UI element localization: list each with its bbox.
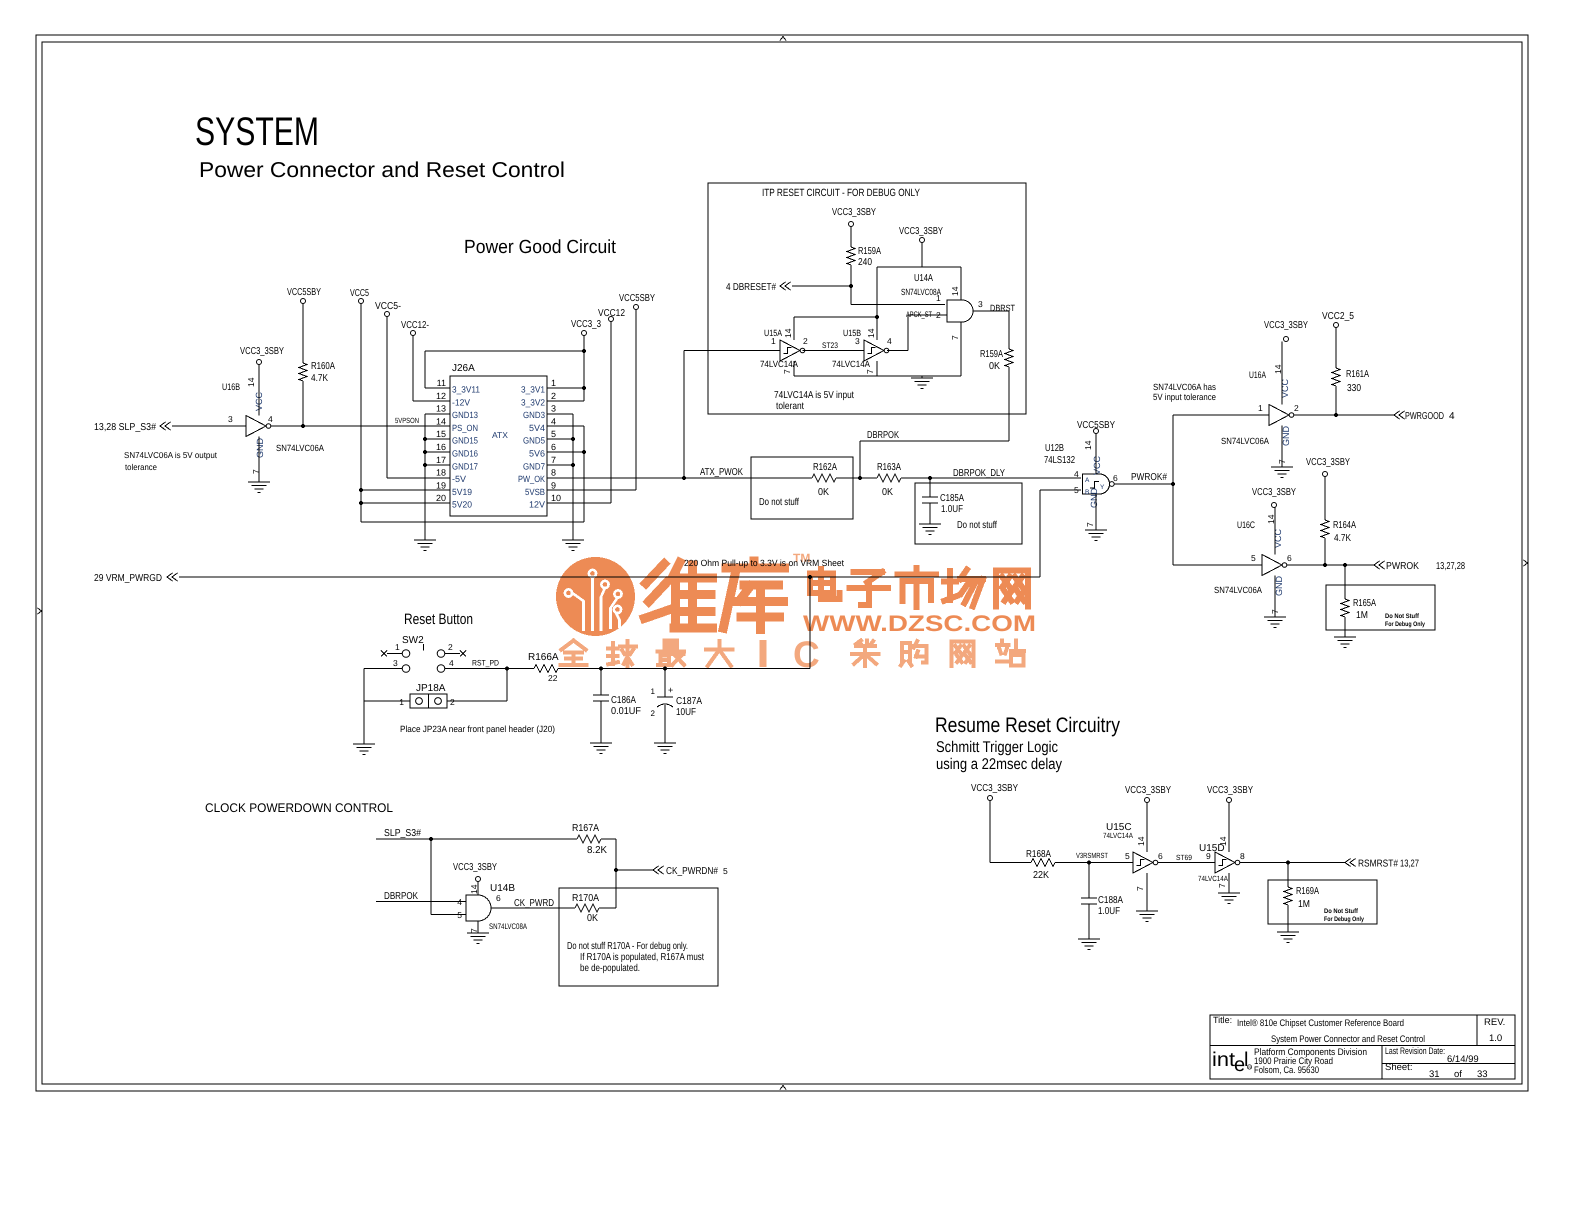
- wire U16A output PWRGOOD: [1294, 414, 1394, 416]
- ground at J26A right: [562, 539, 584, 541]
- svg-text:VCC2_5: VCC2_5: [1322, 311, 1354, 322]
- svg-text:5V input tolerance: 5V input tolerance: [1153, 392, 1216, 402]
- svg-text:10UF: 10UF: [676, 707, 696, 718]
- svg-text:PW_OK: PW_OK: [518, 474, 545, 484]
- svg-text:19: 19: [436, 480, 446, 490]
- resistor R169A 1M: [1287, 863, 1289, 888]
- wire VCC3_3 vertical to pins 1,2: [583, 336, 585, 402]
- svg-text:ATX: ATX: [492, 430, 508, 440]
- svg-text:7: 7: [950, 335, 960, 340]
- junction R164A-PWROK: [1323, 563, 1327, 567]
- svg-text:VCC3_3SBY: VCC3_3SBY: [832, 207, 876, 218]
- svg-text:5: 5: [723, 866, 728, 876]
- svg-text:U16A: U16A: [1249, 370, 1266, 381]
- wire U15D output RSMRST#: [1240, 862, 1345, 864]
- inner border frame: [42, 42, 1522, 1084]
- ground at C186A: [590, 742, 612, 744]
- svg-text:74LVC14A: 74LVC14A: [1103, 831, 1133, 840]
- svg-text:ATX_PWOK: ATX_PWOK: [700, 467, 743, 478]
- svg-text:13,27: 13,27: [1400, 859, 1419, 870]
- svg-text:6: 6: [496, 893, 501, 903]
- svg-text:REV.: REV.: [1484, 1017, 1505, 1028]
- svg-text:8.2K: 8.2K: [587, 845, 607, 856]
- output port RSMRST# to sheets 13,27: [1345, 859, 1351, 867]
- wire U14A ground stem: [921, 376, 923, 378]
- svg-text:VCC3_3SBY: VCC3_3SBY: [1207, 785, 1253, 796]
- wire SLP_S3# down to U14B pin 5: [430, 839, 432, 915]
- svg-text:3: 3: [551, 404, 556, 414]
- svg-text:22: 22: [548, 673, 558, 683]
- svg-text:4.7K: 4.7K: [311, 373, 328, 384]
- wire J26A pin 2: [547, 400, 584, 402]
- wire J26A pin 11 to VCC3_3 rail: [425, 387, 450, 389]
- svg-text:5: 5: [457, 910, 462, 920]
- ground at C185A: [919, 523, 941, 525]
- svg-text:Reset Button: Reset Button: [404, 611, 473, 628]
- wire SLP_S3# to R167A: [376, 838, 577, 840]
- wire U16B output to J26A pin 14 PS_ON net 5VPSON: [271, 425, 450, 427]
- svg-text:C186A: C186A: [611, 695, 636, 706]
- svg-text:74LS132: 74LS132: [1044, 455, 1075, 466]
- do-not-stuff box R162A: [751, 457, 853, 519]
- junction DBRESET#-R159A: [849, 284, 853, 288]
- svg-text:1: 1: [1258, 403, 1263, 413]
- svg-text:R159A: R159A: [858, 246, 881, 257]
- junction C187A tap: [663, 666, 667, 670]
- svg-text:1: 1: [771, 336, 776, 346]
- svg-text:For Debug Only: For Debug Only: [1324, 916, 1364, 923]
- svg-text:RST_PD: RST_PD: [472, 659, 499, 668]
- svg-text:5V4: 5V4: [529, 423, 545, 433]
- junction VRM_PWRGD-reset net: [808, 575, 812, 579]
- svg-text:SN74LVC06A is 5V output: SN74LVC06A is 5V output: [124, 450, 218, 460]
- svg-text:240: 240: [858, 257, 872, 268]
- resistor R160A 4.7K: [302, 304, 304, 364]
- svg-text:14: 14: [246, 377, 256, 387]
- svg-text:14: 14: [950, 286, 960, 296]
- svg-text:DBRPOK: DBRPOK: [867, 430, 899, 441]
- watermark logo disc: [556, 557, 635, 636]
- right center zone mark: [1524, 560, 1528, 566]
- schmitt inverter U15A 74LVC14A: [760, 328, 808, 374]
- svg-text:13: 13: [436, 404, 446, 414]
- junction SLP_S3# branch to U14B: [429, 837, 433, 841]
- svg-text:VCC3_3SBY: VCC3_3SBY: [1264, 320, 1308, 331]
- wire J26A pin 4 5V4: [547, 425, 584, 427]
- svg-text:4: 4: [449, 658, 454, 668]
- svg-text:JP18A: JP18A: [416, 683, 446, 694]
- wire SW2 pin 3 to ground bus: [364, 668, 402, 670]
- svg-text:GND: GND: [1089, 488, 1099, 509]
- wire VCC12- to pin 12: [412, 336, 414, 402]
- svg-text:1: 1: [395, 642, 400, 652]
- ground at U16B: [248, 481, 270, 483]
- svg-text:SLP_S3#: SLP_S3#: [384, 828, 421, 839]
- svg-text:18: 18: [436, 468, 446, 478]
- svg-text:74LVC14A: 74LVC14A: [760, 359, 798, 369]
- resistor R163A 0K: [877, 474, 901, 482]
- svg-text:Do not stuff R170A - For debu: Do not stuff R170A - For debug only.: [567, 941, 688, 952]
- wire J26A pin 6 5V6: [547, 451, 584, 453]
- svg-text:4.7K: 4.7K: [1334, 533, 1351, 544]
- svg-text:1.0UF: 1.0UF: [941, 504, 963, 515]
- ground at U15C: [1136, 910, 1158, 912]
- svg-text:Power Connector and Reset Cont: Power Connector and Reset Control: [199, 158, 565, 182]
- svg-text:2: 2: [551, 391, 556, 401]
- svg-text:VCC5: VCC5: [350, 288, 369, 299]
- svg-text:PWROK#: PWROK#: [1131, 472, 1167, 483]
- junction R169A tap: [1286, 860, 1290, 864]
- svg-text:0K: 0K: [882, 487, 893, 498]
- svg-text:of: of: [1454, 1069, 1462, 1080]
- svg-text:9: 9: [551, 480, 556, 490]
- svg-text:7: 7: [1217, 883, 1227, 888]
- svg-text:PWROK: PWROK: [1386, 561, 1419, 572]
- svg-text:5VSB: 5VSB: [525, 487, 545, 497]
- resistor R159A 240: [850, 227, 852, 248]
- junction C185A tap: [928, 476, 932, 480]
- svg-text:VCC3_3SBY: VCC3_3SBY: [1125, 785, 1171, 796]
- inverter U16C: [1214, 508, 1292, 618]
- svg-text:R170A: R170A: [572, 893, 599, 904]
- svg-text:5V20: 5V20: [452, 500, 472, 510]
- capacitor C187A 10UF polarized: [664, 669, 666, 698]
- svg-text:4: 4: [887, 336, 892, 346]
- junction 5V bus-5V6: [582, 450, 586, 454]
- svg-text:2: 2: [448, 642, 453, 652]
- wire DBRPOK to U14B pin 4: [376, 901, 466, 903]
- svg-text:Last Revision Date:: Last Revision Date:: [1385, 1046, 1445, 1057]
- svg-text:4: 4: [268, 414, 273, 424]
- svg-text:GND16: GND16: [452, 449, 478, 459]
- ground at U15D: [1218, 892, 1240, 894]
- ground at C187A: [654, 742, 676, 744]
- svg-text:tolerance: tolerance: [125, 462, 157, 472]
- U14A power rail rect: [877, 266, 961, 268]
- svg-text:tolerant: tolerant: [776, 401, 804, 412]
- junction C188A tap: [1087, 860, 1091, 864]
- svg-text:R168A: R168A: [1026, 849, 1051, 860]
- wire J26A pin 20: [361, 502, 450, 504]
- junction GND7: [571, 463, 575, 467]
- svg-text:0K: 0K: [818, 487, 829, 498]
- svg-text:5: 5: [551, 429, 556, 439]
- svg-text:For Debug Only: For Debug Only: [1385, 621, 1425, 628]
- svg-text:R162A: R162A: [813, 462, 837, 473]
- U15 power rail rect: [794, 316, 877, 318]
- svg-text:7: 7: [865, 369, 875, 374]
- svg-text:10: 10: [551, 493, 561, 503]
- svg-text:GND: GND: [255, 438, 265, 459]
- svg-text:SN74LVC06A: SN74LVC06A: [1221, 436, 1269, 446]
- svg-text:SN74LVC06A: SN74LVC06A: [1214, 585, 1262, 595]
- svg-text:Do not stuff: Do not stuff: [957, 520, 997, 531]
- svg-text:22K: 22K: [1033, 870, 1049, 881]
- svg-text:PS_ON: PS_ON: [452, 423, 478, 433]
- svg-text:GND7: GND7: [523, 461, 545, 471]
- svg-text:U16C: U16C: [1237, 520, 1255, 531]
- watermark characters dian-zi-shi-chang-wang: [810, 571, 833, 577]
- svg-text:1: 1: [551, 378, 556, 388]
- wire U15B output to U14A pin 2: [887, 350, 908, 352]
- svg-text:ITP RESET CIRCUIT - FOR DEBUG: ITP RESET CIRCUIT - FOR DEBUG ONLY: [762, 187, 920, 199]
- svg-text:4 DBRESET#: 4 DBRESET#: [726, 282, 776, 293]
- wire VCC5SBY to pin 9: [635, 310, 637, 491]
- output port PWROK to sheets 13,27,28: [1374, 561, 1380, 569]
- svg-text:VCC3_3: VCC3_3: [571, 319, 601, 330]
- resistor R159A 0K pulldown: [1008, 311, 1010, 349]
- wire ATX_PWOK up to U15A input: [683, 351, 685, 479]
- svg-text:17: 17: [436, 455, 446, 465]
- ground at R165A: [1334, 636, 1356, 638]
- svg-text:1M: 1M: [1356, 610, 1368, 621]
- svg-text:0.01UF: 0.01UF: [611, 706, 641, 717]
- wire DBRPOK net: [859, 441, 861, 478]
- svg-text:5V19: 5V19: [452, 487, 472, 497]
- svg-text:SN74LVC08A: SN74LVC08A: [901, 287, 941, 297]
- svg-text:Do Not Stuff: Do Not Stuff: [1324, 908, 1359, 915]
- svg-text:VCC5-: VCC5-: [375, 301, 401, 312]
- junction U14A rail to U15 rail: [875, 315, 879, 319]
- wire U16C output PWROK: [1287, 564, 1374, 566]
- svg-text:2: 2: [803, 336, 808, 346]
- svg-text:14: 14: [1083, 440, 1093, 450]
- wire U12B output PWROK#: [1114, 483, 1173, 485]
- svg-text:Do not stuff: Do not stuff: [759, 497, 799, 508]
- wire JP18A pin 2: [447, 700, 507, 702]
- ground at J26A left: [414, 539, 436, 541]
- ITP reset circuit box: [708, 183, 1026, 414]
- capacitor C186A 0.01UF: [600, 669, 602, 696]
- svg-text:If R170A is populated, R167A m: If R170A is populated, R167A must: [580, 952, 704, 963]
- svg-text:8: 8: [1240, 851, 1245, 861]
- svg-text:VCC: VCC: [1092, 455, 1102, 475]
- svg-text:12V: 12V: [529, 500, 545, 510]
- svg-text:3: 3: [393, 658, 398, 668]
- wire VCC3_3SBY to R168A: [989, 801, 991, 863]
- svg-text:14: 14: [436, 416, 446, 426]
- do-not-stuff box R169A: [1268, 880, 1377, 924]
- resistor R168A 22K: [1031, 859, 1055, 867]
- svg-text:5: 5: [1125, 851, 1130, 861]
- do-not-stuff box C185A: [915, 483, 1022, 544]
- svg-text:13,27,28: 13,27,28: [1436, 561, 1465, 572]
- svg-text:14: 14: [1218, 836, 1228, 846]
- capacitor C188A 1.0UF: [1088, 863, 1090, 899]
- ground at U16C: [1264, 616, 1286, 618]
- svg-text:2: 2: [1294, 403, 1299, 413]
- wire U15C output to U15D net ST69: [1158, 862, 1215, 864]
- svg-text:R164A: R164A: [1333, 520, 1356, 531]
- svg-text:SN74LVC06A: SN74LVC06A: [276, 443, 324, 453]
- svg-text:J26A: J26A: [452, 363, 475, 374]
- inverter U16A: [1221, 342, 1299, 468]
- wire J26A pin 19: [361, 489, 450, 491]
- svg-text:14: 14: [783, 328, 793, 338]
- svg-text:VCC3_3SBY: VCC3_3SBY: [240, 346, 284, 357]
- svg-text:Place JP23A near front panel h: Place JP23A near front panel header (J20…: [400, 724, 555, 734]
- wire J26A pin 8 PW_OK to ATX_PWOK: [547, 477, 751, 479]
- svg-text:R169A: R169A: [1296, 886, 1319, 897]
- svg-text:+: +: [668, 685, 673, 695]
- wire VCC12 to pin 10: [610, 322, 612, 504]
- svg-text:be de-populated.: be de-populated.: [580, 963, 640, 974]
- svg-text:4: 4: [551, 416, 556, 426]
- ground at SW2/JP18A: [353, 743, 375, 745]
- svg-text:Schmitt Trigger Logic: Schmitt Trigger Logic: [936, 739, 1058, 756]
- svg-text:7: 7: [551, 455, 556, 465]
- svg-text:R163A: R163A: [877, 462, 901, 473]
- capacitor C185A 1.0UF: [929, 478, 931, 497]
- svg-text:12: 12: [436, 391, 446, 401]
- nand gate U12B 74LS132: [1044, 440, 1118, 527]
- junction RST_PD: [505, 666, 509, 670]
- svg-text:5: 5: [1074, 485, 1079, 495]
- ground at U16A: [1271, 466, 1293, 468]
- ground at C188A: [1078, 938, 1100, 940]
- svg-text:14: 14: [1136, 836, 1146, 846]
- svg-text:8: 8: [551, 468, 556, 478]
- jumper JP18A: [399, 683, 455, 708]
- svg-text:R: R: [1248, 1065, 1251, 1070]
- svg-text:C185A: C185A: [940, 493, 964, 504]
- svg-text:WWW.DZSC.COM: WWW.DZSC.COM: [803, 611, 1036, 636]
- svg-text:Do Not Stuff: Do Not Stuff: [1385, 613, 1420, 620]
- svg-text:5V6: 5V6: [529, 449, 545, 459]
- svg-text:R161A: R161A: [1346, 369, 1369, 380]
- svg-text:9: 9: [1206, 851, 1211, 861]
- svg-text:Intel® 810e Chipset Customer R: Intel® 810e Chipset Customer Reference B…: [1237, 1018, 1404, 1029]
- svg-text:0K: 0K: [587, 913, 598, 924]
- svg-text:SN74LVC06A has: SN74LVC06A has: [1153, 382, 1216, 392]
- svg-text:330: 330: [1347, 383, 1361, 394]
- resistor R161A 330: [1335, 328, 1337, 369]
- top center zone mark: [780, 37, 786, 41]
- bottom center zone mark: [780, 1086, 786, 1090]
- wire DBRESET# to R159A junction: [792, 285, 851, 287]
- svg-text:SN74LVC08A: SN74LVC08A: [489, 922, 528, 931]
- svg-text:VCC3_3SBY: VCC3_3SBY: [971, 783, 1018, 794]
- svg-text:16: 16: [436, 442, 446, 452]
- AND gate U14B SN74LVC08A: [457, 882, 527, 934]
- svg-text:31: 31: [1429, 1069, 1440, 1080]
- svg-text:R165A: R165A: [1353, 598, 1376, 609]
- svg-text:4: 4: [1074, 469, 1079, 479]
- svg-text:SYSTEM: SYSTEM: [195, 110, 319, 154]
- watermark bottom row quan-qiu-zui-da-IC-cai-gou-wang-zhan: [561, 641, 573, 650]
- svg-text:3_3V11: 3_3V11: [452, 385, 480, 395]
- svg-text:4: 4: [1449, 411, 1455, 422]
- wire SLP_S3# to U16B input: [172, 425, 246, 427]
- watermark big characters wei-ku: [646, 564, 665, 584]
- svg-text:6: 6: [551, 442, 556, 452]
- svg-text:VCC12: VCC12: [598, 308, 625, 319]
- do-not-stuff box R165A: [1326, 585, 1435, 630]
- resistor R167A 8.2K: [577, 835, 601, 843]
- svg-text:2: 2: [450, 697, 455, 707]
- junction GND17: [423, 463, 427, 467]
- resistor R165A 1M: [1344, 565, 1346, 599]
- svg-text:Folsom, Ca. 95630: Folsom, Ca. 95630: [1254, 1065, 1319, 1076]
- junction GND5: [571, 437, 575, 441]
- svg-text:C187A: C187A: [676, 696, 702, 707]
- svg-text:VCC5SBY: VCC5SBY: [287, 287, 321, 298]
- schmitt inverter U15C 74LVC14A: [1103, 803, 1163, 912]
- svg-text:using a 22msec delay: using a 22msec delay: [936, 756, 1062, 773]
- wire VCC5 down and around to 5V pins: [360, 304, 362, 523]
- schmitt inverter U15B 74LVC14A: [832, 328, 892, 374]
- junction DBRPOK branch: [858, 476, 862, 480]
- schmitt inverter U15D 74LVC14A: [1198, 803, 1245, 894]
- svg-text:20: 20: [436, 493, 446, 503]
- svg-text:VCC3_3SBY: VCC3_3SBY: [899, 226, 943, 237]
- svg-text:7: 7: [1085, 522, 1095, 527]
- title block outline: [1210, 1015, 1515, 1079]
- junction ATX_PWOK branch to ITP circuit: [682, 476, 686, 480]
- svg-text:33: 33: [1477, 1069, 1488, 1080]
- svg-text:1: 1: [399, 697, 404, 707]
- junction C186A tap: [599, 666, 603, 670]
- output port CK_PWRDN# to sheet 5: [616, 869, 653, 871]
- left GND bus J26A: [425, 413, 450, 415]
- svg-text:74LVC14A: 74LVC14A: [1198, 874, 1228, 883]
- svg-text:-5V: -5V: [452, 474, 466, 484]
- junction GND16: [423, 450, 427, 454]
- wire to U14A pin 1: [851, 304, 945, 306]
- svg-text:3: 3: [855, 336, 860, 346]
- svg-text:DBRPOK: DBRPOK: [384, 891, 418, 902]
- svg-text:7: 7: [1135, 886, 1145, 891]
- svg-text:1.0: 1.0: [1489, 1033, 1502, 1044]
- svg-text:VCC3_3SBY: VCC3_3SBY: [453, 862, 497, 873]
- svg-text:3_3V1: 3_3V1: [521, 385, 545, 395]
- svg-text:13,28 SLP_S3#: 13,28 SLP_S3#: [94, 422, 156, 433]
- svg-text:U14A: U14A: [914, 273, 933, 284]
- svg-text:VCC3_3SBY: VCC3_3SBY: [1252, 487, 1296, 498]
- svg-text:29 VRM_PWRGD: 29 VRM_PWRGD: [94, 573, 162, 584]
- wire U15A output to U15B input net ST23: [803, 350, 865, 352]
- svg-text:GND13: GND13: [452, 410, 478, 420]
- ground at R169A: [1277, 931, 1299, 933]
- resistor R164A 4.7K: [1324, 477, 1326, 521]
- ground at U14B: [467, 932, 489, 934]
- ground at U12B: [1085, 529, 1107, 531]
- svg-text:R166A: R166A: [528, 652, 559, 663]
- svg-text:GND17: GND17: [452, 461, 478, 471]
- svg-text:6: 6: [1158, 851, 1163, 861]
- svg-text:GND15: GND15: [452, 436, 478, 446]
- svg-text:3_3V2: 3_3V2: [521, 397, 545, 407]
- svg-text:Sheet:: Sheet:: [1385, 1062, 1412, 1073]
- svg-text:Resume Reset Circuitry: Resume Reset Circuitry: [935, 714, 1120, 737]
- svg-text:6/14/99: 6/14/99: [1447, 1054, 1479, 1065]
- svg-text:U16B: U16B: [222, 382, 240, 393]
- svg-text:V3RSMRST: V3RSMRST: [1076, 851, 1108, 860]
- left center zone mark: [38, 608, 42, 614]
- svg-text:74LVC14A is 5V input: 74LVC14A is 5V input: [774, 390, 854, 401]
- svg-text:DBRPOK_DLY: DBRPOK_DLY: [953, 468, 1005, 479]
- inverter U16B: [222, 365, 324, 483]
- wire SW2 pin 4 RST_PD: [445, 668, 507, 670]
- svg-text:R160A: R160A: [311, 361, 335, 372]
- svg-text:CK_PWRDN#: CK_PWRDN#: [666, 866, 718, 877]
- wire U12B power stem: [1095, 434, 1097, 475]
- ground at U14A rail: [911, 377, 933, 379]
- junction R165A-PWROK: [1343, 563, 1347, 567]
- svg-text:ST23: ST23: [822, 341, 838, 350]
- svg-text:2: 2: [651, 709, 656, 718]
- junction PWROK# branch: [1171, 482, 1175, 486]
